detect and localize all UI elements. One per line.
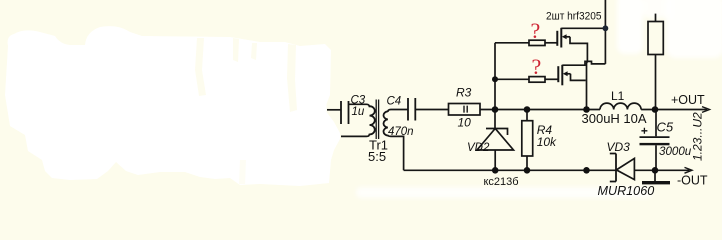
gate resistor (lower, value ?) — [529, 77, 545, 83]
svg-text:L1: L1 — [611, 89, 625, 103]
bottom rail (left of VD3) — [404, 169, 616, 171]
wire: upper gate resistor to gate — [545, 42, 557, 44]
resistor R3 power marks — [464, 106, 467, 113]
svg-text:3000u: 3000u — [659, 145, 692, 158]
gate resistor (upper, value ?) — [529, 40, 545, 45]
wire: L1 to +OUT — [641, 109, 707, 111]
svg-text:2шт hrf3205: 2шт hrf3205 — [546, 11, 602, 23]
wire: C4 to R3 — [415, 109, 448, 111]
diode VD3 MUR1060 — [610, 154, 655, 182]
transformer core — [376, 100, 378, 140]
ground — [642, 170, 670, 184]
svg-text:кс213б: кс213б — [484, 176, 519, 188]
svg-text:?: ? — [531, 18, 541, 43]
+OUT arrow head — [702, 107, 710, 113]
svg-text:R3: R3 — [456, 86, 472, 100]
wire: Tr1 left winding bottom to left — [341, 134, 370, 137]
capacitor C4 — [408, 98, 415, 121]
wire: Tr1 right winding bottom to bottom rail — [388, 135, 404, 171]
cream slivers inside erased area — [195, 38, 297, 184]
wire: gate riser — [494, 43, 496, 110]
wire: lower drain with crossover jog to top rail — [562, 61, 605, 65]
inductor L1 — [600, 103, 641, 109]
wire: lower gate resistor to gate — [545, 78, 558, 80]
wire: -OUT rail — [655, 169, 690, 171]
svg-text:?: ? — [532, 54, 542, 79]
svg-text:5:5: 5:5 — [368, 149, 386, 164]
zener diode VD2 — [477, 110, 514, 171]
wire: top rail to image edge — [604, 0, 606, 64]
node: switch node (sources / L1) — [583, 106, 590, 113]
wire: input to C3 — [327, 109, 341, 111]
svg-text:300uH 10A: 300uH 10A — [582, 111, 647, 126]
svg-text:+OUT: +OUT — [671, 93, 705, 107]
load resistor (top right) — [648, 14, 663, 110]
node: switch riser at bottom rail — [583, 167, 590, 174]
transformer Tr1 right winding — [383, 111, 387, 135]
svg-text:-OUT: -OUT — [677, 174, 708, 188]
node: L1 out / C5 / load resistor — [652, 106, 659, 113]
capacitor C5 (electrolytic) — [640, 110, 670, 171]
svg-text:10k: 10k — [537, 135, 557, 149]
node: R3 output / VD2 top — [492, 106, 499, 113]
node: gate riser junction — [492, 76, 498, 82]
-OUT arrow head — [685, 167, 693, 173]
node: VD2 bottom — [492, 167, 499, 174]
transformer Tr1 left winding — [370, 106, 375, 134]
transistor Q1 hrf3205 (upper MOSFET) — [557, 28, 587, 110]
node: R4 top — [524, 106, 531, 113]
svg-text:470n: 470n — [388, 126, 414, 138]
svg-text:VD3: VD3 — [607, 140, 631, 154]
wire: lower gate branch — [495, 78, 529, 80]
svg-text:VD2: VD2 — [467, 142, 490, 154]
resistor R4 — [522, 110, 533, 171]
node: C5 bottom / ground — [652, 167, 659, 174]
node: drain rail — [603, 25, 609, 31]
svg-text:C3: C3 — [351, 94, 366, 106]
wire: Tr1 right winding top to C4 — [388, 110, 408, 113]
wire: upper drain to top rail — [561, 27, 605, 29]
svg-text:C4: C4 — [387, 96, 402, 108]
resistor R3 — [449, 104, 481, 116]
node: R4 bottom — [524, 167, 531, 174]
svg-text:C5: C5 — [657, 119, 674, 134]
capacitor C3 — [341, 101, 349, 124]
wire: upper gate branch — [495, 42, 529, 44]
wire: C3 to Tr1 left winding top — [349, 104, 370, 107]
svg-text:10: 10 — [458, 115, 472, 129]
wire: mid rail R3 to L1 — [480, 109, 600, 111]
svg-text:1.23...U2: 1.23...U2 — [691, 112, 705, 161]
svg-text:MUR1060: MUR1060 — [598, 184, 655, 198]
transistor Q2 hrf3205 (lower MOSFET) — [558, 65, 585, 86]
svg-text:1u: 1u — [352, 106, 365, 118]
